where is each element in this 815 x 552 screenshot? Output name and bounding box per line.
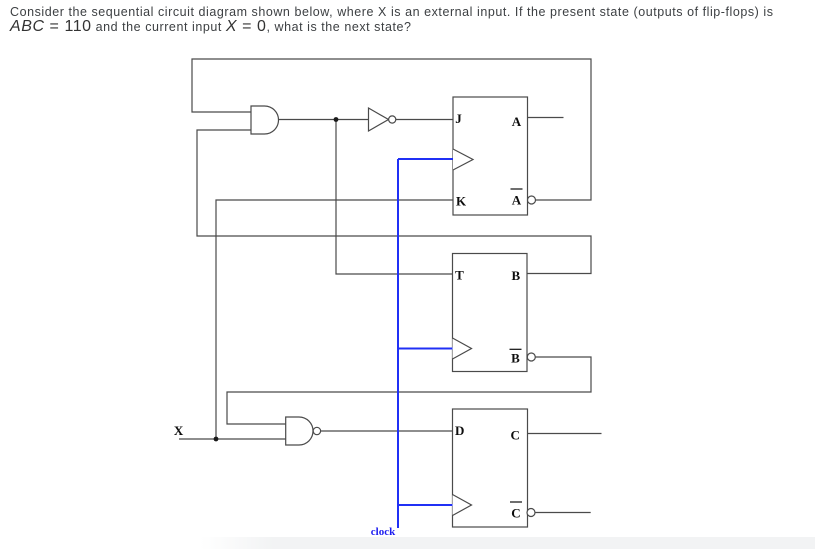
svg-text:T: T — [455, 267, 464, 282]
svg-text:C: C — [511, 427, 520, 442]
wire: K input line from X junction — [216, 200, 453, 439]
svg-text:clock: clock — [371, 526, 396, 538]
node: X input junction — [214, 437, 219, 442]
wire: A output — [528, 117, 564, 119]
svg-text:D: D — [455, 423, 464, 438]
inverter U1 triangle — [369, 108, 389, 131]
clock triangle U3 — [453, 338, 472, 359]
wire: C output — [528, 433, 602, 435]
NAND gate — [286, 417, 313, 445]
wire: clock branch to U4 — [398, 504, 453, 506]
wire: AND output to inverter — [279, 119, 369, 121]
inverter U1 bubble — [389, 116, 396, 123]
wire: junction down to T input — [336, 120, 453, 275]
clock triangle U2 — [453, 149, 473, 170]
wire: clock vertical — [397, 159, 399, 528]
wire: clock branch to U2 — [398, 158, 453, 160]
wire: clock branch to U3 — [398, 348, 453, 350]
overline of C-bar — [510, 501, 522, 503]
wire: inverter output to J — [396, 119, 453, 121]
NAND bubble — [313, 427, 320, 434]
svg-text:B: B — [511, 351, 520, 366]
flip-flop U4 (D) box — [453, 409, 528, 527]
flip-flop U3 (T) box — [453, 254, 528, 372]
wire: X input — [179, 438, 286, 440]
wire: B-bar feedback to NAND upper input — [227, 357, 591, 424]
AND gate — [251, 106, 279, 134]
flip-flop U2 (JK) box — [453, 97, 528, 215]
svg-text:J: J — [455, 111, 462, 126]
bottom gray band — [200, 537, 815, 549]
svg-text:K: K — [456, 194, 467, 209]
svg-text:B: B — [511, 268, 520, 283]
svg-text:X: X — [174, 423, 184, 438]
C-bar output bubble — [527, 509, 535, 517]
clock triangle U4 — [453, 495, 472, 516]
overline of B-bar — [510, 348, 522, 350]
svg-text:A: A — [512, 114, 522, 129]
wire: A-bar feedback top loop — [192, 59, 591, 200]
B-bar output bubble — [527, 353, 535, 361]
wire: C-bar output — [535, 512, 591, 514]
wire: B feedback to AND lower input — [197, 130, 591, 274]
wire: NAND output to D — [321, 430, 453, 432]
node: AND output junction — [334, 117, 339, 122]
svg-text:C: C — [511, 505, 520, 520]
overline of A-bar — [511, 188, 523, 190]
A-bar output bubble — [528, 196, 536, 204]
svg-text:A: A — [512, 193, 522, 208]
